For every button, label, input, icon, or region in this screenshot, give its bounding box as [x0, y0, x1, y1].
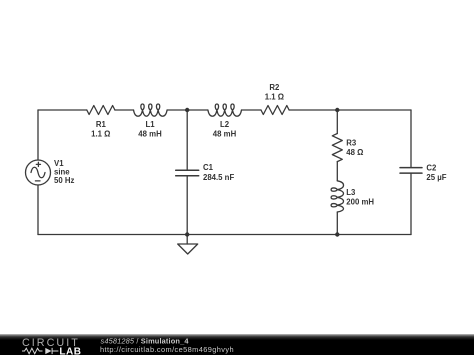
inductor L1: [134, 104, 168, 116]
wire L1 to node A: [167, 109, 208, 111]
resistor R1: [87, 106, 115, 115]
footer bar: [0, 334, 474, 355]
inductor L2: [208, 104, 242, 116]
capacitor C2: [400, 168, 422, 174]
voltage source V1: [26, 160, 51, 185]
svg-text:LAB: LAB: [59, 347, 81, 355]
wire L3 to bottom: [336, 212, 338, 235]
wire L2 to R2: [242, 109, 262, 111]
node ground junction dot C1: [185, 232, 189, 236]
logo diode: [45, 348, 51, 354]
logo zigzag resistor: [22, 348, 42, 354]
wire left rail lower: [37, 185, 39, 235]
wire right rail lower: [410, 173, 412, 234]
wire R3 to L3: [336, 162, 338, 181]
ground: [178, 244, 198, 254]
capacitor C1: [176, 170, 199, 176]
resistor R3: [332, 134, 342, 162]
wire C1 branch lower: [186, 176, 188, 235]
resistor R2: [261, 106, 289, 115]
svg-text:http://circuitlab.com/ce58m469: http://circuitlab.com/ce58m469ghvyh: [100, 345, 234, 354]
wire top-left horizontal: [38, 109, 87, 111]
wire right rail upper: [410, 110, 412, 167]
node B junction dot: [335, 108, 339, 112]
wire left rail upper: [37, 110, 39, 160]
wire R1 to L1: [115, 109, 134, 111]
node A junction dot: [185, 108, 189, 112]
inductor L3: [331, 181, 343, 212]
wire R2 to top-right corner: [289, 109, 411, 111]
ground stub: [186, 235, 188, 245]
node ground junction dot L3: [335, 232, 339, 236]
wire C1 branch upper: [186, 110, 188, 170]
wire bottom horizontal: [38, 234, 411, 236]
wire R3 branch top stub: [336, 110, 338, 134]
